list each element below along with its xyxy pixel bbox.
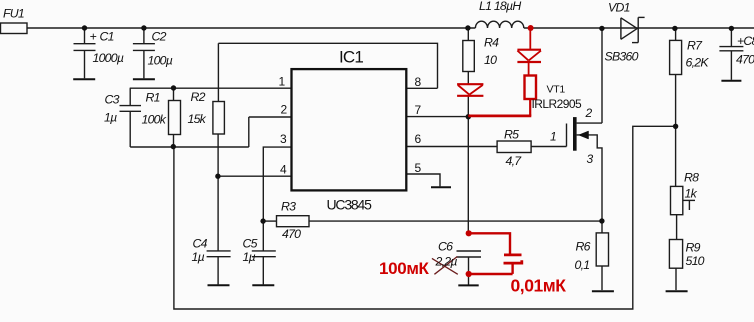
- svg-text:R4: R4: [484, 36, 499, 50]
- svg-text:6,2K: 6,2K: [686, 56, 710, 70]
- svg-text:R5: R5: [504, 128, 519, 142]
- svg-text:R3: R3: [281, 200, 296, 214]
- svg-text:R2: R2: [191, 90, 206, 104]
- svg-text:+: +: [90, 30, 97, 44]
- svg-text:2: 2: [585, 106, 593, 120]
- svg-text:R8: R8: [684, 171, 699, 185]
- svg-text:470µ: 470µ: [736, 53, 754, 67]
- svg-text:R1: R1: [146, 91, 160, 105]
- svg-text:510: 510: [686, 254, 705, 268]
- svg-text:1: 1: [279, 75, 286, 89]
- svg-text:7: 7: [415, 103, 422, 117]
- svg-text:VT1: VT1: [547, 84, 566, 96]
- svg-text:1k: 1k: [685, 187, 698, 201]
- svg-text:10: 10: [484, 53, 497, 67]
- svg-text:VD1: VD1: [608, 1, 630, 15]
- svg-text:1µ: 1µ: [104, 111, 117, 125]
- svg-text:L1 18µH: L1 18µH: [479, 0, 521, 13]
- svg-text:C1: C1: [100, 30, 114, 44]
- svg-text:6: 6: [415, 132, 422, 146]
- svg-text:R6: R6: [576, 240, 591, 254]
- svg-text:100µ: 100µ: [148, 54, 173, 68]
- svg-text:4,7: 4,7: [506, 154, 523, 168]
- svg-text:R7: R7: [687, 39, 703, 53]
- svg-text:15k: 15k: [188, 112, 207, 126]
- svg-text:IC1: IC1: [339, 48, 363, 67]
- svg-text:SB360: SB360: [605, 50, 639, 64]
- svg-text:C4: C4: [193, 237, 208, 251]
- svg-text:0,1: 0,1: [575, 258, 590, 272]
- svg-text:R9: R9: [686, 241, 701, 255]
- svg-text:8: 8: [415, 75, 422, 89]
- svg-text:1µ: 1µ: [243, 250, 256, 264]
- svg-text:C6: C6: [438, 240, 453, 254]
- svg-text:1000µ: 1000µ: [93, 51, 124, 65]
- svg-text:1µ: 1µ: [192, 250, 205, 264]
- svg-text:1: 1: [550, 130, 556, 144]
- svg-text:FU1: FU1: [3, 7, 24, 21]
- svg-text:2: 2: [281, 103, 288, 117]
- svg-text:0,01мК: 0,01мК: [511, 276, 567, 296]
- svg-text:C5: C5: [243, 237, 258, 251]
- svg-text:+C8: +C8: [737, 34, 754, 48]
- svg-text:5: 5: [415, 161, 422, 175]
- svg-text:3: 3: [280, 132, 287, 146]
- svg-text:UC3845: UC3845: [327, 197, 373, 213]
- svg-text:4: 4: [280, 163, 287, 177]
- svg-text:C3: C3: [105, 93, 120, 107]
- svg-text:C2: C2: [152, 30, 167, 44]
- svg-text:470: 470: [282, 227, 301, 241]
- svg-text:IRLR2905: IRLR2905: [532, 97, 583, 111]
- svg-text:2,2µ: 2,2µ: [435, 255, 458, 269]
- svg-text:100мК: 100мК: [379, 259, 430, 278]
- svg-text:100k: 100k: [142, 113, 167, 127]
